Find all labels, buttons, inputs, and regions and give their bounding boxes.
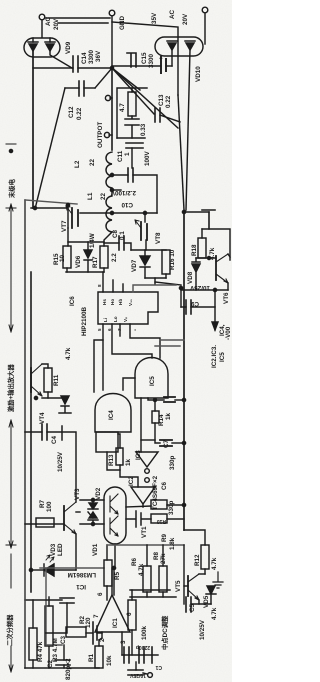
svg-text:6: 6: [126, 612, 133, 616]
svg-text:7: 7: [93, 614, 100, 618]
svg-text:GND: GND: [119, 16, 126, 30]
svg-text:R12: R12: [194, 554, 201, 566]
svg-text:6: 6: [97, 592, 104, 596]
svg-text:VT7: VT7: [61, 220, 68, 232]
svg-text:R14: R14: [158, 414, 165, 426]
svg-text:4.7k: 4.7k: [211, 607, 218, 620]
svg-text:3300: 3300: [148, 53, 155, 68]
svg-text:1k: 1k: [125, 458, 132, 466]
svg-text:AC: AC: [169, 9, 176, 19]
svg-text:VD9: VD9: [65, 41, 72, 54]
svg-text:330p: 330p: [169, 455, 176, 470]
svg-text:C6: C6: [161, 481, 168, 490]
svg-text:VD1: VD1: [92, 543, 99, 556]
svg-text:R1: R1: [88, 653, 95, 662]
svg-text:R17: R17: [92, 256, 99, 268]
svg-text:R13: R13: [108, 454, 115, 466]
svg-text:4.7k: 4.7k: [138, 563, 145, 576]
svg-text:IC5: IC5: [149, 376, 156, 386]
svg-text:VD2: VD2: [95, 487, 102, 500]
svg-text:-V00: -V00: [225, 326, 232, 340]
svg-text:VT5: VT5: [175, 580, 182, 592]
svg-text:Hb: Hb: [118, 299, 123, 305]
svg-text:IC1: IC1: [112, 618, 119, 628]
svg-text:激励+输出放大器: 激励+输出放大器: [6, 364, 15, 412]
svg-text:22: 22: [100, 192, 107, 200]
svg-text:1: 1: [124, 152, 131, 156]
svg-text:1/4W: 1/4W: [89, 233, 96, 248]
svg-text:35V: 35V: [151, 12, 158, 24]
svg-text:2200p: 2200p: [136, 644, 150, 650]
svg-text:C10: C10: [121, 201, 133, 208]
svg-text:IC6: IC6: [69, 296, 76, 306]
svg-text:C9: C9: [190, 300, 199, 307]
svg-text:OUTPOT: OUTPOT: [97, 122, 104, 148]
svg-text:4.7k: 4.7k: [209, 247, 216, 260]
svg-text:1.8k: 1.8k: [169, 537, 176, 550]
svg-text:C2: C2: [47, 659, 54, 668]
svg-text:IC2: IC2: [128, 476, 135, 486]
svg-text:HIP2100B: HIP2100B: [81, 306, 88, 336]
svg-text:VD8: VD8: [187, 271, 194, 284]
svg-text:C3: C3: [60, 635, 67, 644]
svg-text:VT8: VT8: [155, 232, 162, 244]
svg-text:VT4: VT4: [39, 412, 46, 424]
svg-text:R10: R10: [157, 518, 166, 524]
svg-text:8: 8: [97, 284, 102, 287]
svg-text:C5: C5: [189, 603, 196, 612]
svg-text:R4 47k: R4 47k: [37, 641, 44, 662]
svg-text:VD3: VD3: [50, 543, 57, 556]
svg-text:V₁₁: V₁₁: [128, 299, 133, 306]
svg-text:IC3: IC3: [135, 450, 142, 460]
svg-text:3: 3: [120, 640, 127, 644]
svg-text:100k: 100k: [141, 625, 148, 640]
svg-text:IC4: IC4: [108, 410, 115, 420]
svg-text:7: 7: [117, 328, 122, 331]
svg-text:330p: 330p: [168, 500, 175, 515]
svg-text:C11: C11: [117, 150, 124, 162]
svg-text:820p×2: 820p×2: [65, 658, 72, 680]
svg-text:R8: R8: [153, 551, 160, 560]
svg-text:0.33: 0.33: [140, 123, 147, 136]
svg-text:C13: C13: [158, 94, 165, 106]
svg-text:Li: Li: [103, 318, 108, 322]
svg-text:0.1: 0.1: [119, 231, 126, 240]
svg-text:10/25V: 10/25V: [199, 619, 206, 640]
svg-text:0.22: 0.22: [165, 95, 172, 108]
svg-text:IC1: IC1: [76, 583, 86, 590]
svg-text:C14: C14: [81, 52, 88, 64]
svg-text:10: 10: [59, 254, 66, 262]
svg-text:Hs: Hs: [102, 299, 107, 305]
svg-text:3300: 3300: [88, 49, 95, 64]
svg-text:C12: C12: [68, 106, 75, 118]
svg-text:2: 2: [99, 638, 106, 642]
svg-text:VD10: VD10: [195, 66, 202, 82]
svg-text:Ho: Ho: [110, 299, 115, 305]
svg-text:10/25V: 10/25V: [57, 451, 64, 472]
svg-text:VD5: VD5: [203, 595, 210, 608]
svg-text:末级电: 末级电: [7, 178, 16, 198]
svg-text:中点DC调整: 中点DC调整: [160, 615, 169, 650]
svg-text:4.7k: 4.7k: [65, 347, 72, 360]
svg-text:R16 10: R16 10: [169, 249, 176, 270]
svg-text:IC2.IC3.: IC2.IC3.: [211, 345, 218, 368]
svg-text:VT1: VT1: [141, 526, 148, 538]
svg-text:10k: 10k: [106, 655, 113, 666]
svg-text:4.7: 4.7: [119, 103, 126, 112]
svg-text:100: 100: [46, 501, 53, 512]
svg-text:2.2/100V: 2.2/100V: [110, 189, 136, 196]
svg-text:L2: L2: [74, 160, 81, 168]
svg-text:IC5: IC5: [219, 352, 226, 362]
svg-text:VD7: VD7: [131, 259, 138, 272]
svg-text:+: +: [158, 56, 165, 60]
svg-text:C7: C7: [163, 439, 170, 448]
svg-text:C4: C4: [51, 435, 58, 444]
svg-text:₂: ₂: [132, 329, 137, 331]
svg-text:R5: R5: [114, 571, 121, 580]
svg-text:27k: 27k: [160, 553, 167, 564]
svg-text:20V: 20V: [182, 13, 189, 25]
svg-text:R18: R18: [191, 244, 198, 256]
svg-text:VT6: VT6: [223, 292, 230, 304]
svg-text:0.22: 0.22: [76, 107, 83, 120]
svg-text:Vₛ: Vₛ: [123, 317, 128, 322]
svg-text:TC4S69F×2: TC4S69F×2: [152, 475, 159, 510]
svg-text:VT3: VT3: [74, 488, 81, 500]
svg-text:20V: 20V: [53, 18, 60, 30]
svg-text:10/25V: 10/25V: [189, 284, 210, 291]
svg-text:二次分频器: 二次分频器: [5, 614, 14, 646]
svg-text:100V: 100V: [144, 150, 151, 166]
svg-text:6: 6: [107, 328, 112, 331]
svg-text:C15: C15: [141, 52, 148, 64]
svg-text:4.7k: 4.7k: [211, 557, 218, 570]
svg-text:LED: LED: [57, 543, 64, 556]
svg-text:LM3861M: LM3861M: [68, 571, 96, 578]
svg-text:1k: 1k: [165, 412, 172, 420]
svg-text:VD6: VD6: [75, 255, 82, 268]
svg-text:AC: AC: [45, 16, 52, 26]
svg-text:5: 5: [97, 328, 102, 331]
svg-text:2.2: 2.2: [111, 253, 118, 262]
svg-text:R9: R9: [161, 533, 168, 542]
svg-text:120: 120: [85, 617, 92, 628]
svg-text:R3 4.7M: R3 4.7M: [52, 638, 59, 662]
svg-text:C8: C8: [112, 229, 119, 238]
svg-text:22: 22: [89, 158, 96, 166]
svg-text:36V: 36V: [95, 50, 102, 62]
svg-text:C1: C1: [155, 664, 162, 670]
svg-text:R11: R11: [53, 374, 60, 386]
svg-text:L1: L1: [87, 192, 94, 200]
svg-text:R6: R6: [131, 557, 138, 566]
svg-text:R7: R7: [39, 499, 46, 508]
svg-text:10/25V: 10/25V: [129, 672, 146, 678]
svg-text:Lo: Lo: [113, 316, 118, 322]
